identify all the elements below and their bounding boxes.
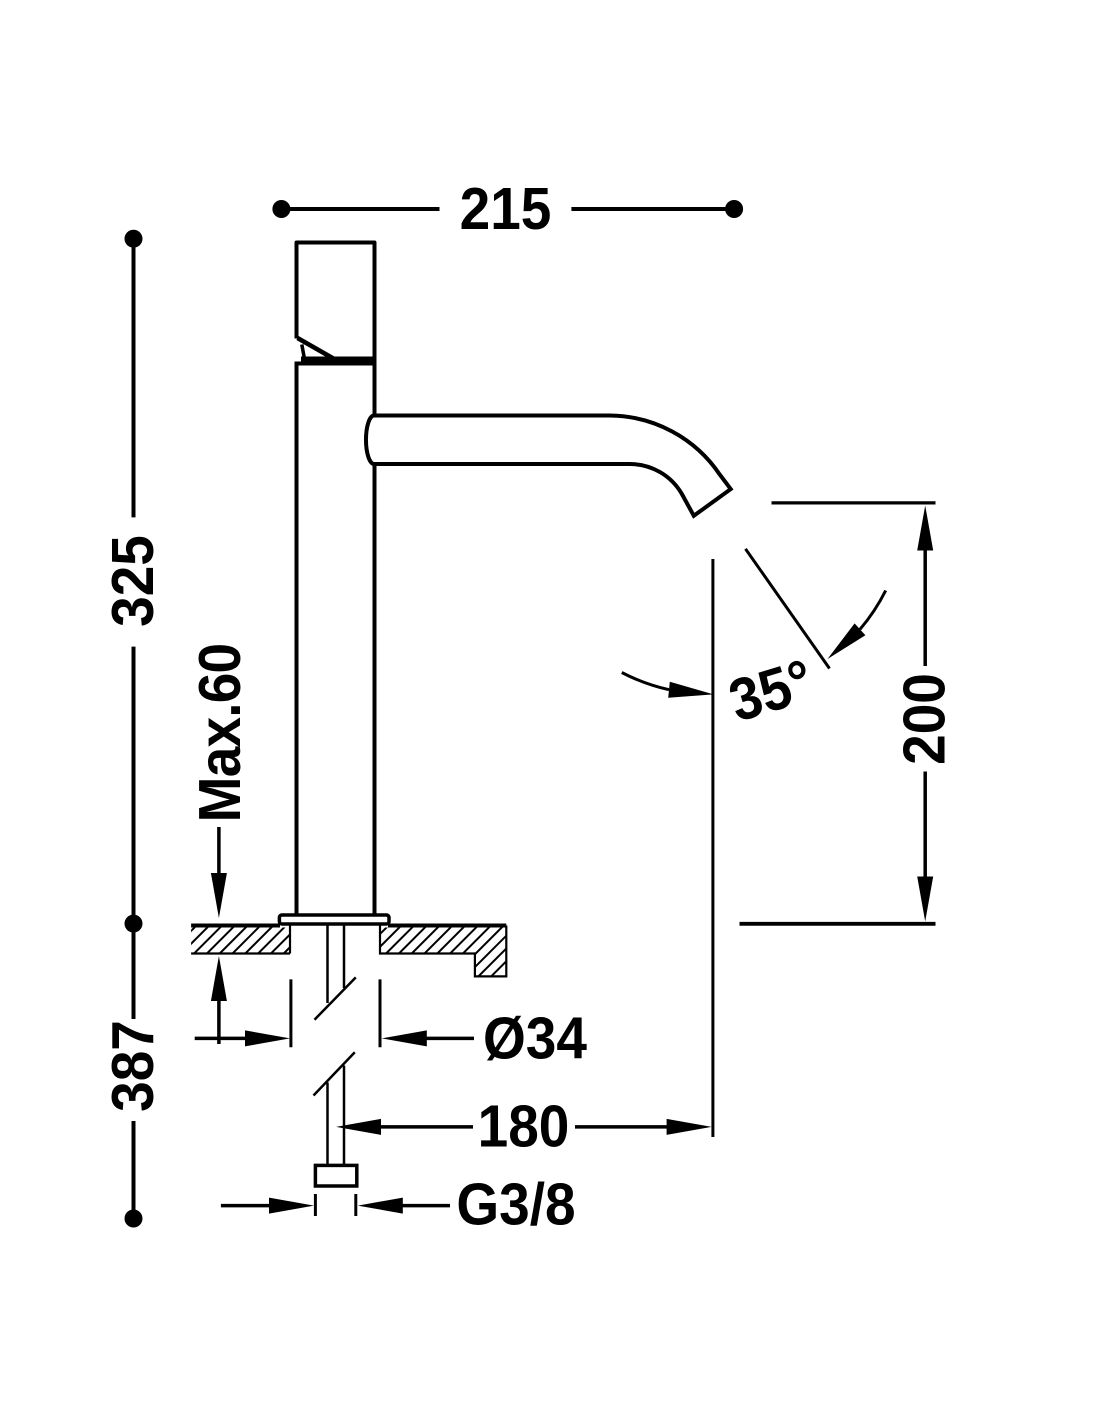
supply pipe lower section	[328, 1066, 345, 1165]
countertop left block bottom and hole edge	[191, 926, 290, 954]
stream angle diagonal line	[746, 549, 830, 669]
dimension Ø34 left arrow	[195, 1030, 290, 1046]
dimension G3/8 right arrow	[358, 1198, 450, 1214]
dimension Ø34 left extension tick	[289, 979, 292, 1047]
dimension 200 top reference line	[772, 501, 936, 504]
svg-text:Ø34: Ø34	[483, 1005, 587, 1072]
svg-text:325: 325	[100, 535, 167, 627]
dimension Ø34 right extension tick	[379, 979, 382, 1047]
dimension 215 line left segment	[272, 200, 439, 218]
faucet body column	[297, 364, 375, 918]
handle cap	[297, 243, 375, 360]
countertop right block outline	[380, 926, 506, 977]
angle arc arrow left	[622, 673, 714, 698]
dimension 200 lower arrow	[917, 772, 933, 922]
countertop right hatched block (L-shaped section)	[316, 920, 547, 985]
svg-text:387: 387	[100, 1020, 167, 1112]
dimension 215 line right segment	[571, 200, 743, 218]
supply pipe upper section	[328, 924, 345, 1003]
water stream reference vertical line	[711, 559, 714, 1137]
Max.60 arrow (down to counter top)	[211, 827, 227, 918]
dimension 200 bottom reference line	[740, 922, 936, 926]
svg-text:200: 200	[891, 673, 958, 765]
dimension G3/8 right extension tick	[354, 1194, 357, 1216]
dimension line 387 lower segment	[125, 1121, 143, 1228]
dimension G3/8 left extension tick	[314, 1194, 317, 1216]
dimension Ø34 right arrow	[382, 1030, 474, 1046]
dimension G3/8 left arrow	[221, 1198, 314, 1214]
svg-text:180: 180	[478, 1093, 570, 1160]
countertop left hatched block	[124, 920, 330, 985]
spout	[366, 416, 731, 516]
handle lever diagonal	[298, 338, 337, 360]
svg-text:Max.60: Max.60	[187, 644, 254, 823]
overall height dimension line 325 (left, upper)	[125, 230, 143, 518]
pipe break line 2	[314, 1052, 355, 1095]
handle bottom edge	[301, 356, 377, 362]
svg-text:215: 215	[460, 176, 552, 243]
dimension 180 left arrow	[336, 1119, 473, 1135]
dimension line 325 lower segment with mid dot	[125, 647, 143, 1019]
counter top surface line left	[191, 924, 280, 928]
dimension 200 upper arrow	[917, 506, 933, 667]
handle lever gap line	[302, 345, 305, 359]
dimension 180 right arrow	[575, 1119, 712, 1135]
base flange	[279, 915, 389, 924]
counter thickness arrow (up)	[211, 956, 227, 1044]
G3/8 connector nut	[315, 1165, 356, 1186]
pipe break line 1	[315, 977, 356, 1019]
counter top surface line right	[388, 924, 506, 928]
svg-text:G3/8: G3/8	[456, 1171, 575, 1238]
angle arc arrow right	[828, 591, 886, 660]
